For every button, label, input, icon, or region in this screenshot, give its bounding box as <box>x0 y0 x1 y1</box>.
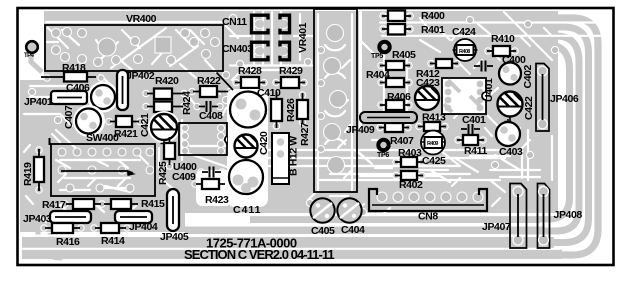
resistor R416 <box>45 223 80 248</box>
copper pour main <box>20 11 558 232</box>
resistor R411 <box>457 135 487 157</box>
routing isolation white lines <box>22 10 605 249</box>
resistor R407 <box>379 123 414 147</box>
jumper JP407 <box>482 184 527 249</box>
resistor R427 <box>297 93 311 146</box>
resistor R413 <box>418 112 446 132</box>
svg-text:CN8: CN8 <box>418 211 438 223</box>
right margin trace curve 4 <box>490 45 570 219</box>
svg-text:R405: R405 <box>392 49 416 61</box>
svg-text:R421: R421 <box>114 128 138 140</box>
svg-text:R426: R426 <box>285 98 297 122</box>
switch SW400 <box>50 132 156 196</box>
svg-text:U401: U401 <box>483 78 495 102</box>
svg-text:C420: C420 <box>258 131 270 155</box>
jumper JP404 <box>115 211 158 233</box>
IC U400 <box>173 123 227 173</box>
svg-text:C402: C402 <box>522 64 534 88</box>
svg-text:SECTION C VER2.0 04-11-11: SECTION C VER2.0 04-11-11 <box>184 247 334 262</box>
svg-text:C405: C405 <box>311 225 335 237</box>
resistor R420 <box>147 75 183 99</box>
svg-text:C401: C401 <box>462 114 486 126</box>
svg-text:R408: R408 <box>459 49 470 55</box>
capacitor C404 <box>337 198 365 236</box>
svg-text:C408: C408 <box>199 110 223 122</box>
test point TP5 <box>371 42 390 60</box>
resistor R428 <box>235 65 265 88</box>
svg-text:JP406: JP406 <box>550 93 579 105</box>
resistor R415 <box>104 198 165 210</box>
svg-text:JP404: JP404 <box>129 221 158 233</box>
svg-text:C422: C422 <box>523 96 535 120</box>
test point TP6 <box>377 140 389 159</box>
svg-text:CN403: CN403 <box>222 43 253 55</box>
svg-text:JP403: JP403 <box>23 213 52 225</box>
svg-text:R407: R407 <box>390 135 414 147</box>
trimmer C421 <box>139 113 177 147</box>
svg-text:C424: C424 <box>452 26 476 38</box>
clearance around C421 <box>148 111 180 143</box>
svg-text:JP409: JP409 <box>346 124 375 136</box>
capacitor C400 <box>499 54 526 85</box>
resistor R400 <box>382 10 445 22</box>
clearance around C406 <box>88 82 119 113</box>
svg-text:R417: R417 <box>42 199 66 211</box>
svg-text:R420: R420 <box>155 75 179 87</box>
resistor R424 <box>147 91 193 115</box>
resistor R419 <box>22 149 44 191</box>
capacitor C408 <box>199 101 223 122</box>
svg-text:VR401: VR401 <box>297 22 309 53</box>
resistor R406 <box>380 91 411 110</box>
jumper JP401 <box>24 91 87 108</box>
svg-text:R427: R427 <box>299 122 311 146</box>
svg-text:R425: R425 <box>157 161 169 185</box>
svg-text:R411: R411 <box>464 145 487 157</box>
resistor R401 <box>382 24 445 36</box>
potentiometer VR400 <box>45 13 223 71</box>
trimmer C422 <box>498 92 536 123</box>
capacitor C403 <box>496 119 523 158</box>
capacitor C409 <box>172 167 221 184</box>
svg-text:C404: C404 <box>341 224 365 236</box>
svg-text:C411: C411 <box>233 204 262 216</box>
bottom trace band 4 <box>250 216 540 223</box>
svg-text:R423: R423 <box>205 194 229 206</box>
bottom-left corner trace arcs <box>38 230 62 258</box>
connector (unlabeled, right of C420) <box>272 133 289 184</box>
right margin trace curve 2 <box>470 27 589 243</box>
clearance around C407 <box>73 105 105 137</box>
svg-text:R419: R419 <box>22 162 34 186</box>
resistor R426 <box>271 92 297 128</box>
jumper JP405 <box>160 189 189 243</box>
test point TP4 top-left <box>24 41 38 59</box>
trimmer C420 <box>235 131 271 158</box>
connector CN11 <box>222 15 290 33</box>
connector CN8 <box>369 189 487 223</box>
bottom trace band 3 <box>185 227 545 235</box>
bottom trace band 1 <box>22 250 562 260</box>
capacitor C401 <box>461 114 486 134</box>
svg-text:R429: R429 <box>279 65 303 77</box>
svg-text:TP4: TP4 <box>24 53 35 59</box>
svg-text:R400: R400 <box>421 10 445 22</box>
capacitor C424 <box>452 26 478 61</box>
svg-text:R401: R401 <box>421 24 445 36</box>
resistor R410 <box>487 33 516 56</box>
board outline <box>18 8 614 265</box>
resistor R402 <box>395 171 423 191</box>
right margin trace curve 3 <box>480 36 579 231</box>
svg-text:C407: C407 <box>63 105 75 129</box>
white clearance around C410 column <box>227 89 268 207</box>
bottom trace band 2 <box>22 237 554 248</box>
capacitor C411 <box>229 158 263 216</box>
trimmer C423 <box>415 77 440 110</box>
svg-text:TP6: TP6 <box>377 152 389 159</box>
resistor R421 <box>110 116 139 140</box>
jumper JP402 <box>117 70 155 110</box>
jumper JP408 <box>538 184 583 249</box>
resistor R422 <box>193 75 228 97</box>
potentiometer VR401 <box>297 9 357 192</box>
svg-text:R414: R414 <box>101 235 125 247</box>
capacitor C407 <box>63 105 101 134</box>
capacitor C425 <box>421 131 446 168</box>
svg-text:JP405: JP405 <box>160 231 189 243</box>
svg-text:R410: R410 <box>491 33 515 45</box>
left margin traces <box>20 55 46 126</box>
svg-text:R416: R416 <box>56 236 80 248</box>
svg-text:R424: R424 <box>181 91 193 115</box>
capacitor C410 <box>217 73 282 128</box>
resistor R423 <box>196 179 229 206</box>
connector CN403 <box>222 42 290 60</box>
jumper JP403 <box>23 211 91 225</box>
right margin trace curve 1 <box>460 18 598 255</box>
capacitor C400 cap symbol <box>474 61 493 72</box>
svg-text:VR400: VR400 <box>126 13 157 25</box>
resistor R417 <box>42 199 101 211</box>
svg-text:R415: R415 <box>141 198 165 210</box>
IC U401 <box>442 78 495 114</box>
resistor R403 <box>395 147 423 167</box>
svg-text:C421: C421 <box>139 113 151 137</box>
capacitor C405 <box>310 198 335 237</box>
svg-text:JP401: JP401 <box>24 96 53 108</box>
resistor R418 <box>41 62 96 82</box>
svg-text:R402: R402 <box>399 179 423 191</box>
svg-text:JP407: JP407 <box>482 221 511 233</box>
jumper JP406 <box>536 64 579 132</box>
resistor R425 <box>157 137 175 185</box>
resistor R414 <box>95 223 126 247</box>
svg-text:R418: R418 <box>62 62 86 74</box>
svg-text:CN11: CN11 <box>222 16 247 28</box>
svg-text:JP408: JP408 <box>554 209 583 221</box>
svg-text:C409: C409 <box>172 171 196 183</box>
svg-text:C403: C403 <box>499 146 523 158</box>
svg-text:TP5: TP5 <box>371 53 383 60</box>
svg-text:R428: R428 <box>238 65 262 77</box>
resistor R412 <box>416 59 458 80</box>
resistor R405 <box>380 49 416 70</box>
resistor R429 <box>275 65 305 88</box>
solder pads and vias (copper) <box>28 13 558 231</box>
svg-text:R409: R409 <box>427 141 438 147</box>
svg-text:JP402: JP402 <box>126 70 155 82</box>
capacitor C406 <box>66 82 115 109</box>
resistor R404 <box>366 69 410 87</box>
svg-text:C425: C425 <box>422 155 446 167</box>
jumper JP409 <box>346 112 417 136</box>
